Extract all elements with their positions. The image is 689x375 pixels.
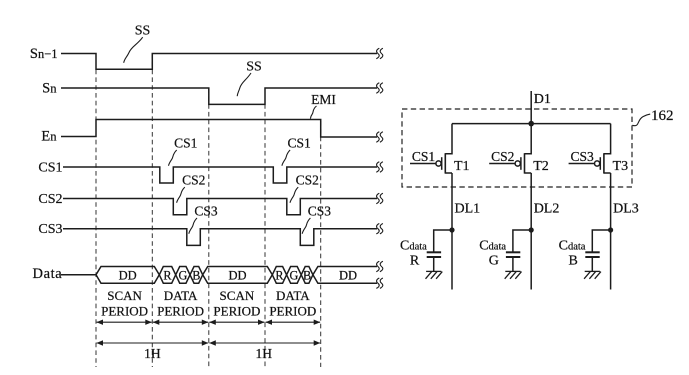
svg-text:PERIOD: PERIOD (213, 304, 260, 319)
node junction D1 (528, 121, 534, 127)
node Data segment B (301, 267, 313, 284)
node CS2 break (376, 193, 379, 203)
capacitor Cdata B (585, 230, 610, 271)
transistor T3 (569, 124, 611, 174)
node period arrow 265-321 (266, 321, 321, 323)
node Data segment DD open (313, 267, 377, 284)
node grid dashed line x=209 (208, 89, 210, 368)
svg-text:1H: 1H (144, 346, 161, 361)
svg-text:Sn−1: Sn−1 (30, 46, 58, 62)
svg-text:T1: T1 (454, 159, 470, 174)
node SS leader line 1 (124, 37, 143, 63)
wire En waveform (61, 120, 377, 138)
svg-text:Sn: Sn (42, 81, 57, 97)
node D1 net (530, 91, 532, 124)
svg-text:DL2: DL2 (534, 202, 560, 217)
svg-text:Cdata: Cdata (400, 239, 427, 254)
node 1H arrow 209-321 (209, 342, 320, 344)
svg-text:R: R (410, 254, 420, 269)
svg-text:B: B (303, 268, 311, 282)
node Data segment G (176, 267, 190, 284)
svg-text:DL1: DL1 (455, 202, 481, 217)
svg-text:PERIOD: PERIOD (157, 304, 204, 319)
node grid dashed line x=96 (95, 54, 97, 367)
svg-text:CS2: CS2 (182, 173, 205, 188)
svg-text:G: G (178, 268, 187, 282)
svg-text:G: G (289, 268, 298, 282)
svg-text:SCAN: SCAN (220, 288, 255, 303)
svg-text:DATA: DATA (276, 288, 310, 303)
node Sn-1 break (376, 48, 379, 58)
ground (426, 271, 443, 278)
svg-text:DD: DD (339, 268, 357, 282)
svg-text:SCAN: SCAN (107, 288, 142, 303)
wire Sn waveform (61, 88, 377, 104)
node Data break top (376, 261, 379, 271)
node Data segment B (190, 267, 203, 284)
svg-text:Data: Data (33, 266, 63, 282)
svg-text:PERIOD: PERIOD (101, 304, 148, 319)
transistor T2 (489, 124, 531, 174)
node Data segment DD (203, 267, 273, 284)
node 162 label (632, 114, 650, 126)
svg-text:T2: T2 (533, 159, 549, 174)
svg-text:CS2: CS2 (296, 173, 319, 188)
wire CS3 waveform (63, 229, 377, 246)
svg-text:PERIOD: PERIOD (269, 304, 316, 319)
node grid dashed line x=152 (151, 54, 153, 367)
wire Data lead (61, 274, 96, 276)
node Data break bottom (376, 278, 379, 288)
ground (505, 271, 522, 278)
node junction DL3 (608, 227, 613, 232)
wire CS1 waveform (63, 167, 377, 183)
svg-text:1H: 1H (256, 346, 273, 361)
svg-text:DATA: DATA (164, 288, 198, 303)
svg-text:CS1: CS1 (412, 149, 435, 164)
node junction DL2 (529, 227, 534, 232)
svg-text:B: B (569, 254, 578, 269)
svg-text:Cdata: Cdata (479, 239, 506, 254)
wire Sn-1 waveform (61, 54, 377, 70)
svg-text:CS2: CS2 (491, 149, 514, 164)
svg-text:CS1: CS1 (38, 160, 62, 175)
node CS3 break (376, 224, 379, 234)
node period arrow 96-152 (97, 321, 152, 323)
svg-text:CS1: CS1 (174, 136, 197, 151)
svg-text:R: R (275, 268, 284, 282)
svg-text:EMI: EMI (311, 92, 336, 107)
wire data bus horizontal (452, 123, 611, 125)
svg-text:CS3: CS3 (308, 204, 332, 219)
svg-text:SS: SS (135, 23, 151, 38)
svg-text:R: R (163, 268, 172, 282)
node Data segment R (159, 267, 175, 284)
svg-text:Cdata: Cdata (559, 239, 586, 254)
node EMI leader line (310, 106, 316, 119)
node Data segment DD (96, 267, 159, 284)
svg-text:D1: D1 (534, 92, 551, 107)
node junction DL1 (449, 227, 454, 232)
capacitor Cdata R (427, 230, 452, 271)
svg-text:G: G (489, 254, 499, 269)
node period arrow 209-265 (209, 321, 264, 323)
node Data segment R (272, 267, 286, 284)
node period arrow 152-209 (153, 321, 208, 323)
svg-text:SS: SS (246, 59, 262, 74)
svg-text:T3: T3 (613, 159, 629, 174)
dashed block 162 (402, 109, 632, 187)
node grid dashed line x=321 (320, 121, 322, 367)
svg-text:162: 162 (651, 108, 674, 124)
wire DL2 (530, 173, 532, 290)
wire CS2 waveform (63, 199, 377, 215)
node En break (376, 132, 379, 142)
node 1H arrow 96-209 (97, 342, 209, 344)
ground (584, 271, 601, 278)
svg-text:CS1: CS1 (287, 136, 310, 151)
capacitor Cdata G (506, 230, 531, 271)
node Data segment G (287, 267, 302, 284)
svg-text:CS3: CS3 (194, 204, 218, 219)
transistor T1 (410, 124, 452, 174)
svg-text:DL3: DL3 (613, 202, 639, 217)
node grid dashed line x=265 (264, 89, 266, 368)
wire DL3 (610, 173, 612, 290)
node Sn break (376, 83, 379, 93)
svg-text:DD: DD (228, 268, 246, 282)
node CS1 break (376, 162, 379, 172)
svg-text:B: B (192, 268, 200, 282)
node SS leader line 2 (237, 73, 251, 96)
wire DL1 (451, 173, 453, 290)
svg-text:CS3: CS3 (38, 222, 62, 237)
svg-text:CS3: CS3 (570, 149, 594, 164)
svg-text:CS2: CS2 (38, 192, 62, 207)
svg-text:DD: DD (119, 268, 137, 282)
svg-text:En: En (41, 129, 57, 145)
